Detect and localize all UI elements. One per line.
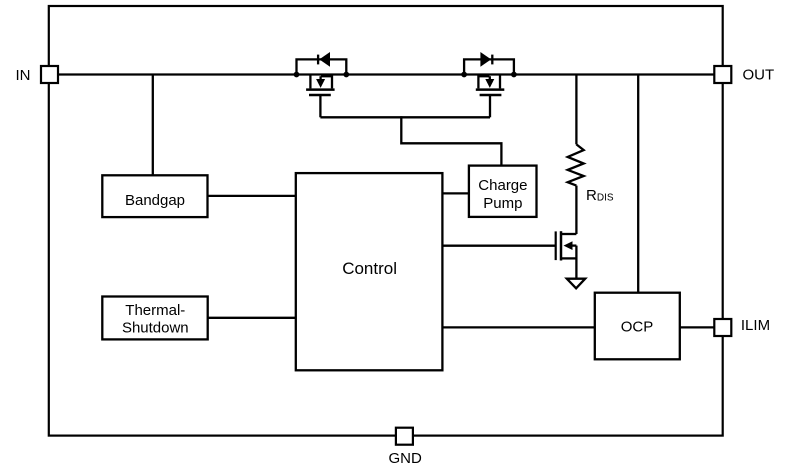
svg-text:ILIM: ILIM xyxy=(741,317,770,334)
svg-text:IN: IN xyxy=(16,67,31,84)
svg-text:Charge: Charge xyxy=(478,177,527,194)
svg-text:Bandgap: Bandgap xyxy=(125,192,185,209)
svg-text:OCP: OCP xyxy=(621,319,654,336)
svg-text:Control: Control xyxy=(342,259,397,278)
svg-text:Thermal-: Thermal- xyxy=(125,302,185,319)
svg-text:Shutdown: Shutdown xyxy=(122,320,189,337)
svg-text:GND: GND xyxy=(389,450,423,467)
svg-text:Pump: Pump xyxy=(483,195,522,212)
svg-text:OUT: OUT xyxy=(743,66,775,83)
svg-text:RDIS: RDIS xyxy=(586,187,614,204)
